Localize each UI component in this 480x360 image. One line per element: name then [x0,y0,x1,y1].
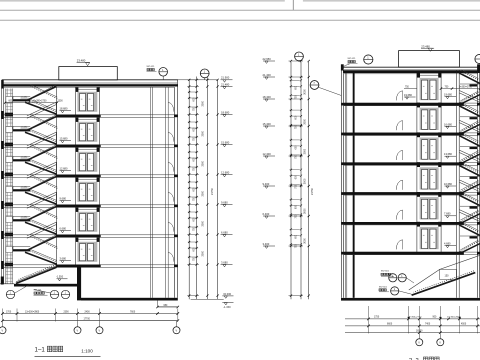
svg-text:9.680: 9.680 [221,200,228,204]
svg-text:19.680: 19.680 [404,93,412,97]
svg-text:1700: 1700 [6,311,12,313]
svg-text:23.480: 23.480 [77,59,86,63]
svg-text:13.680: 13.680 [444,152,452,156]
svg-text:10.680: 10.680 [444,182,452,186]
svg-text:6600: 6600 [387,324,393,326]
svg-text:3000: 3000 [303,148,306,154]
svg-text:12.680: 12.680 [60,167,68,171]
svg-text:7.680: 7.680 [444,212,451,216]
svg-text:3000: 3000 [303,118,306,124]
svg-text:967.021: 967.021 [348,58,357,60]
svg-text:16500: 16500 [416,330,423,332]
svg-text:3000: 3000 [303,208,306,214]
svg-text:3000: 3000 [201,190,204,196]
svg-text:967.021: 967.021 [147,66,156,68]
svg-text:15.680: 15.680 [60,137,68,141]
svg-text:3000: 3000 [201,250,204,256]
svg-text:6.400: 6.400 [263,212,270,216]
svg-text:9×300=2700: 9×300=2700 [459,86,473,89]
svg-text:12.680: 12.680 [221,170,230,174]
svg-text:21.400: 21.400 [263,73,272,77]
svg-text:3.400: 3.400 [263,242,270,246]
svg-text:±0.000: ±0.000 [223,292,231,296]
svg-text:3000: 3000 [201,220,204,226]
svg-text:18.680: 18.680 [60,107,68,111]
svg-text:3000: 3000 [201,130,204,136]
svg-text:967.601: 967.601 [381,270,390,272]
svg-text:9×300=2700: 9×300=2700 [34,100,48,103]
svg-text:150: 150 [445,275,450,278]
svg-text:7600: 7600 [130,311,136,313]
svg-text:21.900: 21.900 [221,76,230,80]
svg-text:21750: 21750 [211,187,214,195]
svg-text:18.680: 18.680 [221,110,230,114]
svg-text:3000: 3000 [303,178,306,184]
svg-text:12.400: 12.400 [263,152,272,156]
svg-text:19.680: 19.680 [444,93,452,97]
svg-text:3000: 3000 [201,160,204,166]
svg-text:2390: 2390 [64,311,70,313]
svg-text:2300: 2300 [58,101,64,103]
svg-text:22.950: 22.950 [263,57,272,61]
svg-text:3000: 3000 [303,89,306,95]
svg-text:21.480: 21.480 [221,82,230,86]
svg-text:2400: 2400 [85,311,91,313]
svg-text:9×300=2700: 9×300=2700 [409,316,422,319]
svg-text:3.680: 3.680 [60,257,67,261]
svg-text:-1.150: -1.150 [223,305,231,309]
svg-text:21750: 21750 [311,187,314,195]
svg-text:1–1: 1–1 [35,347,46,354]
svg-text:3.680: 3.680 [221,260,228,264]
svg-text:6.680: 6.680 [60,227,67,231]
svg-text:17700: 17700 [84,319,91,321]
svg-text:9.400: 9.400 [263,182,270,186]
svg-text:7400: 7400 [425,324,431,326]
svg-text:3000: 3000 [201,100,204,106]
svg-text:13×300=3900: 13×300=3900 [25,310,40,313]
svg-text:23.480: 23.480 [421,44,430,48]
svg-text:4.680: 4.680 [444,242,451,246]
svg-text:9.680: 9.680 [60,197,67,201]
svg-text:6.680: 6.680 [221,230,228,234]
svg-text:15.400: 15.400 [263,122,272,126]
svg-text:4500: 4500 [461,324,467,326]
svg-text:967.601: 967.601 [379,286,388,288]
svg-text:3000: 3000 [303,238,306,244]
svg-text:-1.550: -1.550 [56,276,64,279]
svg-text:16.680: 16.680 [444,122,452,126]
svg-text:1:100: 1:100 [81,349,93,354]
svg-text:1750: 1750 [374,317,380,319]
svg-text:15.680: 15.680 [221,140,230,144]
svg-text:967.021: 967.021 [34,289,43,291]
svg-text:18.400: 18.400 [263,95,272,99]
